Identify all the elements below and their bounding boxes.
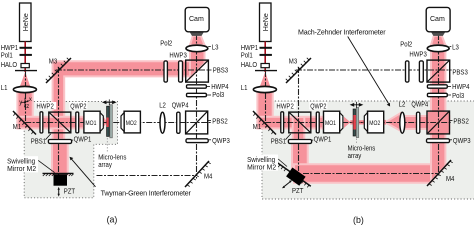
micro-lens array plates (107, 105, 113, 138)
camera mount (b) (431, 32, 446, 36)
PBS1 cube (b) (289, 112, 311, 133)
svg-text:PBS3: PBS3 (452, 68, 467, 76)
svg-text:HeNe: HeNe (21, 13, 30, 31)
MO2 objective (b) (364, 111, 383, 133)
beam: cone MO2->L2 (b) (385, 113, 400, 130)
beam: PBS1 down leg to QWP1 (b) (293, 117, 305, 140)
beam: top band PBS1->M3->PBS3 with leg down to QWP1 (53, 61, 207, 139)
HWP1 (b) (260, 47, 272, 49)
mirror M4 (b) (427, 160, 453, 186)
svg-text:HALO: HALO (1, 61, 18, 69)
label QWP2 on white (69, 102, 87, 109)
svg-text:HeNe: HeNe (261, 13, 270, 31)
svg-text:QWP1: QWP1 (314, 135, 332, 143)
beam: cone in MO1 nose to micro-lens array (104, 117, 108, 127)
svg-text:PBS1: PBS1 (31, 137, 46, 145)
axis: mid row (a) (25, 122, 211, 124)
HWP3 plate (b) (419, 61, 423, 82)
svg-text:QWP4: QWP4 (411, 101, 428, 109)
axis: PBS1/M3 vertical (a) (58, 67, 60, 176)
mirror M2 with PZT (43, 173, 74, 196)
svg-text:array: array (348, 152, 362, 160)
svg-text:(b): (b) (353, 215, 364, 225)
PBS2 cube (186, 111, 208, 134)
svg-text:PBS1: PBS1 (271, 137, 286, 145)
camera Cam (b) (426, 7, 450, 31)
beam: cone HALO->L1 (20, 72, 31, 87)
HALO (15, 64, 37, 71)
beam: reference arm band QWP1->M2 (52, 143, 68, 174)
svg-text:Cam: Cam (430, 14, 445, 23)
label leader micro-lens array (a) (106, 138, 108, 152)
QWP3 plate (186, 139, 208, 143)
svg-text:M1: M1 (253, 123, 261, 131)
beam: mid horizontal band M1->MO1 (b) (257, 117, 323, 129)
svg-text:L1: L1 (241, 84, 248, 92)
svg-text:Pol2: Pol2 (400, 41, 412, 49)
svg-text:PBS2: PBS2 (212, 117, 227, 125)
beam: cone MO1 nose to focus (b) (344, 117, 351, 128)
svg-text:y: y (19, 100, 22, 106)
beam: focus line through array (b) (350, 122, 364, 123)
beam: L1 vertical band to M1 (b) (257, 89, 272, 128)
svg-text:L3: L3 (452, 44, 459, 52)
PBS3 cube (b) (427, 60, 450, 82)
Twyman-Green dashed enclosure box (24, 102, 117, 198)
beam: narrow beam through micro-lens array (b) (350, 120, 364, 124)
Pol3 plate (b) (427, 93, 447, 96)
HWP4 plate (187, 85, 207, 88)
MO1 objective (84, 111, 103, 133)
beam: L1 vertical band to M1 (17, 89, 32, 128)
svg-text:HWP3: HWP3 (409, 51, 426, 59)
QWP4 plate (177, 112, 180, 133)
beam: pink fill inside PBS2 (b) (428, 112, 449, 133)
svg-text:Pol3: Pol3 (452, 92, 464, 100)
svg-text:M4: M4 (204, 172, 212, 180)
lens L3 (186, 45, 208, 52)
label leader micro-lens array (b) (356, 139, 358, 144)
svg-text:HWP2: HWP2 (276, 102, 293, 110)
beam: mid horizontal band M1->MO1 (17, 117, 84, 129)
svg-text:M3: M3 (289, 57, 297, 65)
label QWP2 on white (b) (309, 102, 327, 109)
axis: top row M3->PBS3 (a) (56, 69, 209, 71)
svg-text:array: array (98, 161, 112, 169)
axis: HeNe vertical (b) (265, 71, 267, 127)
beam: cone HALO->L1 (b) (260, 72, 271, 87)
svg-text:PBS3: PBS3 (213, 67, 228, 75)
QWP4 plate (b) (417, 112, 420, 133)
PBS2 cube (b) (427, 111, 450, 134)
lens L1 (b) (253, 86, 276, 92)
label HWP2 on white (36, 102, 57, 109)
svg-text:Pol3: Pol3 (212, 91, 224, 99)
HWP2 plate (b) (281, 112, 284, 133)
svg-text:Mirror M2: Mirror M2 (7, 165, 36, 173)
Pol2 plate (b) (406, 61, 409, 82)
svg-text:x: x (29, 97, 32, 103)
svg-text:L3: L3 (212, 44, 219, 52)
svg-text:HWP4: HWP4 (211, 83, 228, 91)
svg-text:Pol2: Pol2 (160, 40, 172, 48)
svg-text:QWP4: QWP4 (172, 102, 189, 110)
Pol1 (b) (260, 54, 272, 56)
label Swivelling Mirror M2 with leader (7, 156, 39, 172)
beam line HeNe->HALO (24, 42, 26, 73)
svg-text:MO1: MO1 (85, 120, 96, 127)
translation double-arrow above array (b) (351, 102, 362, 108)
beam: band QWP1->M2 (b) (292, 143, 308, 175)
svg-text:HWP3: HWP3 (169, 52, 186, 60)
Pol1 (20, 54, 32, 56)
QWP3 plate (b) (427, 139, 450, 143)
HeNe laser (b) (260, 3, 272, 42)
axis: bottom rail M2->M4 (b) (303, 173, 438, 175)
svg-text:QWP3: QWP3 (453, 137, 471, 145)
mirror M1 (b) (253, 111, 276, 135)
svg-text:Mirror M2: Mirror M2 (247, 164, 276, 172)
svg-text:Cam: Cam (189, 14, 204, 23)
svg-text:QWP3: QWP3 (212, 137, 230, 145)
lens L2 (b) (400, 112, 405, 133)
beam: cone L3 to Cam mount (190, 36, 205, 45)
svg-text:MO2: MO2 (369, 120, 380, 127)
svg-text:Pol1: Pol1 (241, 51, 253, 59)
lens L1 (13, 86, 36, 92)
HALO (b) (255, 64, 277, 71)
svg-text:HWP4: HWP4 (452, 83, 469, 91)
Pol3 plate (187, 93, 207, 96)
svg-text:QWP2: QWP2 (70, 102, 86, 110)
beam: thin beam exiting MO2 (b) (384, 120, 386, 125)
axis: top row M3->PBS3 (b) (296, 69, 449, 71)
svg-text:L2: L2 (159, 102, 166, 110)
Pol2 plate (164, 61, 167, 82)
coordinate axes x/y/z (21, 98, 29, 108)
MO1 objective (b) (324, 111, 343, 133)
svg-text:QWP1: QWP1 (74, 135, 92, 143)
lens L2 (160, 112, 165, 133)
beam: cone L3 to Cam mount (b) (431, 36, 445, 45)
swivelled mirror M2 with PZT (b) (277, 163, 311, 189)
beam: right vertical band M4->PBS2->PBS3->L3 (b) (431, 45, 445, 182)
svg-text:MO1: MO1 (325, 120, 336, 127)
axis: PBS1/M3 vertical (b) (298, 67, 300, 171)
svg-text:z: z (26, 104, 29, 110)
axis: Cam/PBS3/PBS2/M4 vertical (b) (438, 34, 440, 177)
axis: Cam/PBS3/PBS2/M4 vertical (a) (196, 34, 198, 179)
beam: band L2->PBS2 (b) (405, 116, 450, 129)
micro-lens array plates (b) (353, 108, 359, 138)
Mach-Zehnder dashed enclosure box (b) (262, 101, 474, 199)
beam: bottom band M2->M4 (b) (294, 164, 447, 183)
HWP2 plate (40, 112, 43, 133)
axis: mid row (b) (265, 122, 451, 124)
HWP1 (20, 47, 32, 49)
axis: bottom rail to M4 (a) (97, 175, 197, 177)
lens L3 (b) (427, 45, 449, 52)
svg-text:M4: M4 (446, 175, 454, 183)
svg-text:Mach-Zehnder Interferometer: Mach-Zehnder Interferometer (298, 29, 386, 37)
svg-text:L2: L2 (399, 101, 406, 109)
svg-text:PZT: PZT (64, 188, 76, 196)
mirror M1 (13, 111, 36, 135)
HeNe laser (20, 3, 32, 42)
beam: PBS3 vertical band to L3 (190, 45, 205, 78)
svg-text:L1: L1 (1, 84, 8, 92)
axis: HeNe vertical (a) (25, 71, 27, 127)
HWP3 plate (179, 61, 183, 82)
svg-text:(a): (a) (107, 214, 118, 224)
mirror M3 (b) (286, 58, 311, 83)
QWP1 plate (b) (288, 140, 311, 144)
svg-text:Pol1: Pol1 (1, 51, 13, 59)
QWP2 plate (76, 112, 79, 133)
svg-text:QWP2: QWP2 (310, 102, 326, 110)
label HWP2 on white (b) (276, 102, 297, 109)
PBS3 cube (186, 60, 209, 82)
QWP1 plate (48, 140, 71, 144)
svg-text:HWP2: HWP2 (36, 102, 53, 110)
mirror M3 (46, 58, 71, 83)
svg-text:M3: M3 (49, 57, 57, 65)
svg-text:MO2: MO2 (126, 120, 137, 127)
beam line HeNe->HALO (b) (264, 42, 266, 73)
MO2 objective (121, 111, 140, 133)
camera mount (190, 32, 205, 36)
translation double-arrow above array (103, 99, 115, 105)
camera Cam (185, 7, 209, 31)
svg-text:HALO: HALO (241, 61, 258, 69)
svg-text:Twyman-Green Interferometer: Twyman-Green Interferometer (101, 189, 192, 197)
svg-text:PZT: PZT (292, 187, 304, 195)
mirror M4 (185, 161, 211, 187)
svg-text:PBS2: PBS2 (453, 117, 468, 125)
HWP4 plate (b) (427, 85, 447, 88)
svg-text:M1: M1 (13, 123, 21, 131)
QWP2 plate (b) (316, 112, 319, 133)
PBS1 cube (49, 112, 71, 133)
label Swivelling Mirror M2 with leader (b) (247, 155, 279, 171)
